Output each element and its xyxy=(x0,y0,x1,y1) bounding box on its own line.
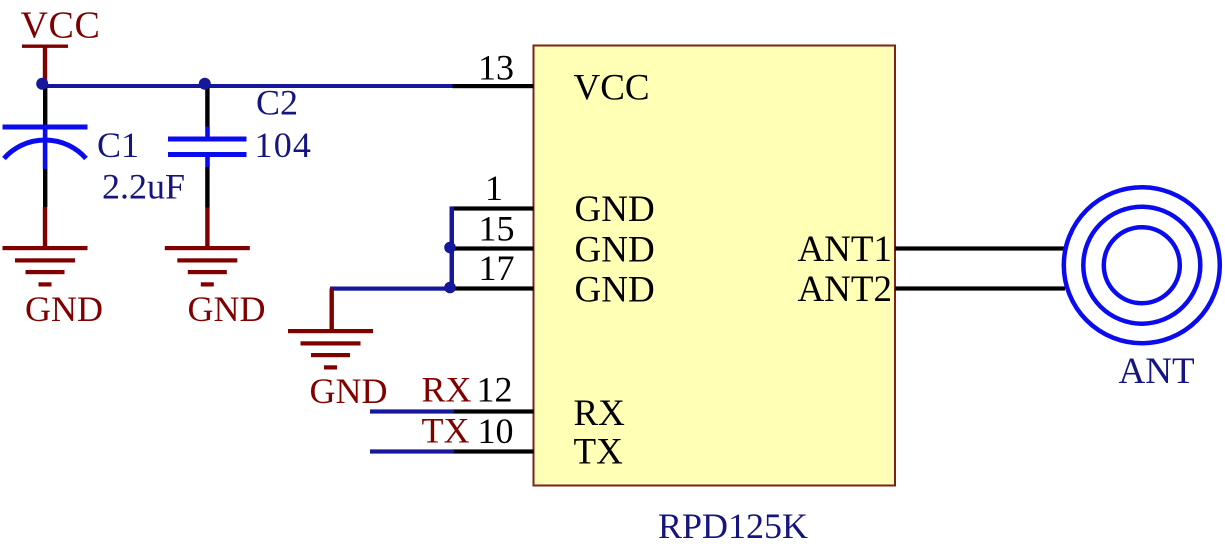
pin 1 GND xyxy=(453,206,534,210)
svg-text:RPD125K: RPD125K xyxy=(658,506,808,546)
svg-text:VCC: VCC xyxy=(21,5,101,47)
wire TX net xyxy=(370,449,454,453)
ground GND3 xyxy=(288,289,388,412)
junction dot at C1/VCC xyxy=(36,78,48,90)
junction dot pin17 xyxy=(444,282,456,294)
svg-text:ANT2: ANT2 xyxy=(797,269,892,310)
wire C2 bottom xyxy=(205,167,209,208)
capacitor C1 xyxy=(3,125,88,170)
svg-text:RX: RX xyxy=(422,370,472,410)
svg-text:GND: GND xyxy=(575,189,655,230)
capacitor C2 xyxy=(168,127,247,168)
svg-text:RX: RX xyxy=(574,393,626,434)
pin 17 GND xyxy=(453,286,534,290)
svg-text:17: 17 xyxy=(479,248,515,288)
svg-text:104: 104 xyxy=(255,125,313,165)
antenna E1 middle circle xyxy=(1083,207,1200,324)
svg-text:10: 10 xyxy=(478,411,514,451)
antenna E1 outer circle xyxy=(1064,187,1220,343)
svg-text:TX: TX xyxy=(422,411,470,451)
svg-text:12: 12 xyxy=(477,370,513,410)
junction dot pin15 xyxy=(444,242,456,254)
wire GND horizontal to ground xyxy=(330,287,452,291)
svg-text:VCC: VCC xyxy=(574,68,650,109)
wire RX net xyxy=(370,409,454,413)
svg-text:1: 1 xyxy=(485,168,503,208)
svg-text:C1: C1 xyxy=(97,125,139,165)
wire C1 top xyxy=(43,84,47,125)
svg-text:13: 13 xyxy=(478,48,514,88)
junction dot at C2 xyxy=(199,78,211,90)
svg-text:TX: TX xyxy=(574,432,624,473)
svg-text:C2: C2 xyxy=(256,83,298,123)
wire VCC net horizontal xyxy=(42,84,454,88)
power port VCC xyxy=(21,5,101,85)
svg-text:GND: GND xyxy=(575,230,655,271)
antenna E1 inner circle xyxy=(1104,227,1180,303)
svg-text:2.2uF: 2.2uF xyxy=(102,167,185,207)
wire C2 top xyxy=(205,84,209,127)
svg-text:ANT1: ANT1 xyxy=(797,229,892,270)
svg-text:15: 15 xyxy=(479,209,515,249)
svg-text:GND: GND xyxy=(188,289,266,329)
wire GND bus vertical xyxy=(450,206,455,290)
pin 15 GND xyxy=(453,246,534,250)
ground GND2 xyxy=(165,208,266,330)
component U1 RPD125K body xyxy=(534,46,896,486)
svg-text:ANT: ANT xyxy=(1119,351,1195,392)
ground GND1 xyxy=(3,207,104,329)
svg-text:GND: GND xyxy=(25,289,103,329)
pin ANT1 xyxy=(895,246,1065,250)
wire C1 bottom xyxy=(43,169,47,207)
svg-text:GND: GND xyxy=(310,371,388,411)
pin 10 TX xyxy=(453,449,534,453)
pin 12 RX xyxy=(453,409,534,413)
pin 13 VCC xyxy=(453,84,534,88)
pin ANT2 xyxy=(895,286,1065,290)
svg-text:GND: GND xyxy=(575,270,655,311)
